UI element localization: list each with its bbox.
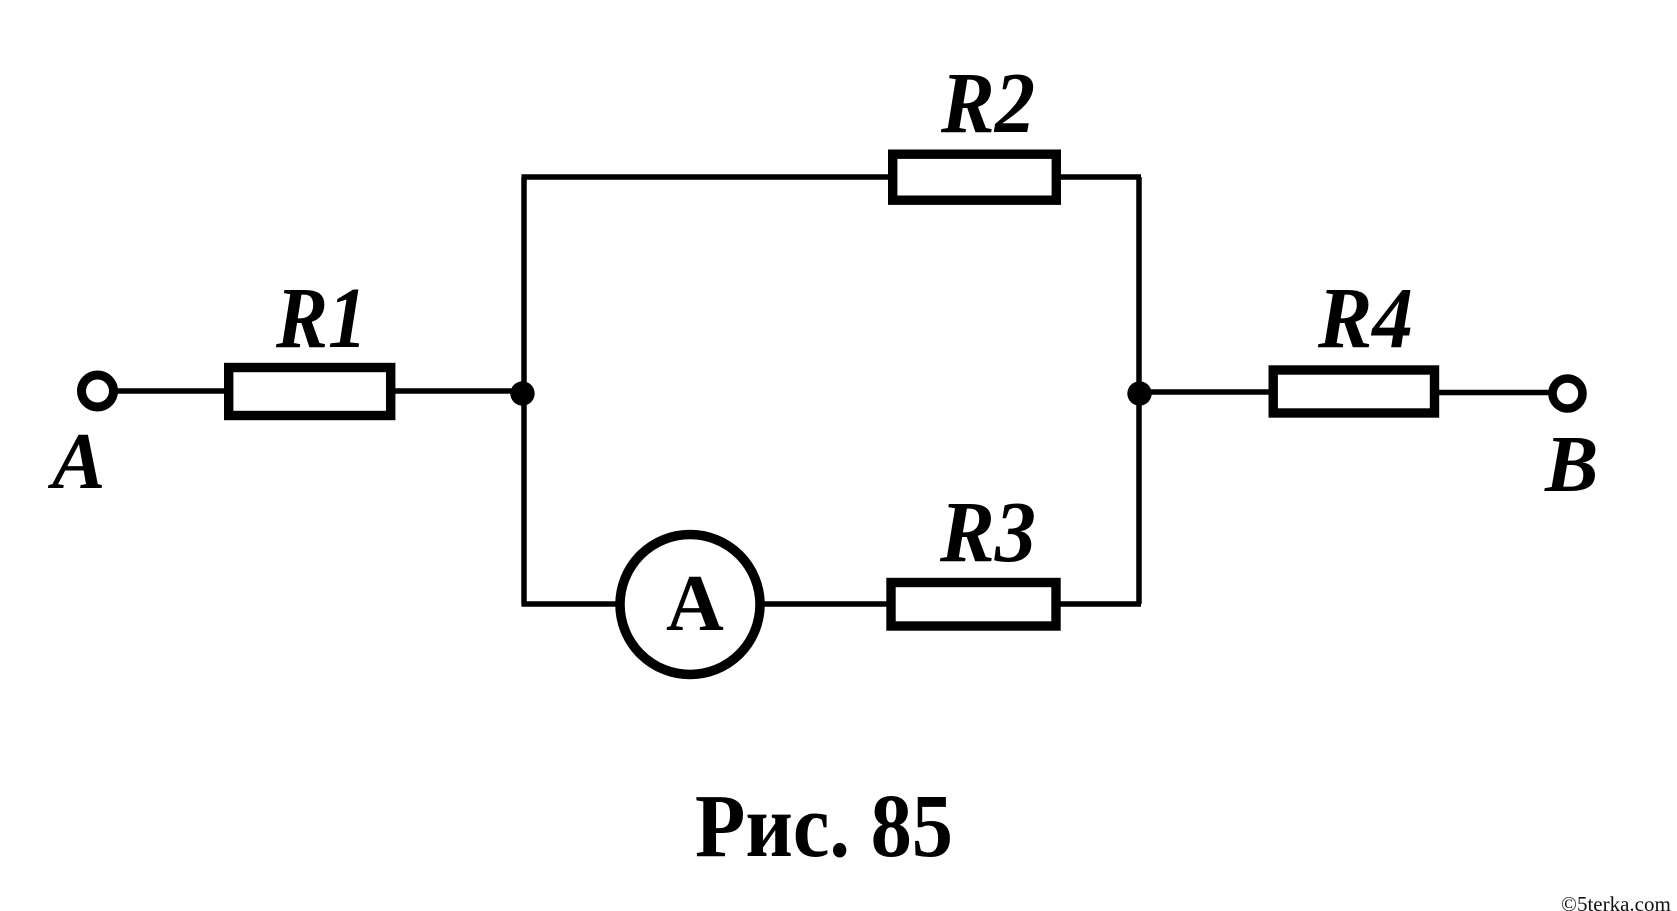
svg-text:B: B [1544,421,1598,509]
wire left vertical [521,177,527,604]
wire top horizontal to R2 [522,174,893,180]
svg-text:A: A [666,560,724,648]
svg-text:A: A [47,418,105,506]
svg-text:R4: R4 [1317,269,1413,366]
wire right vertical [1136,177,1142,604]
ammeter A [620,535,760,675]
svg-text:R3: R3 [939,483,1036,580]
terminal B [1553,379,1583,409]
resistor R4 [1273,370,1434,413]
resistor R2 [893,154,1057,200]
terminal A [82,375,114,407]
resistor R3 [891,583,1056,627]
svg-text:Рис. 85: Рис. 85 [695,777,953,876]
wire R2 to right vertical [1061,174,1141,180]
wire A to R1 [117,388,228,394]
svg-text:R1: R1 [275,269,367,366]
resistor R1 [229,368,391,416]
wire R3 to right vertical [1060,601,1141,607]
svg-text:©5terka.com: ©5terka.com [1561,892,1671,911]
svg-text:R2: R2 [940,54,1035,151]
wire R1 to left node [395,388,524,394]
node right junction [1127,381,1151,405]
wire bottom horizontal left segment [522,601,621,607]
wire ammeter to R3 [763,601,891,607]
wire R4 to B [1439,390,1550,396]
wire right node to R4 [1139,389,1273,395]
node left junction [510,381,534,405]
